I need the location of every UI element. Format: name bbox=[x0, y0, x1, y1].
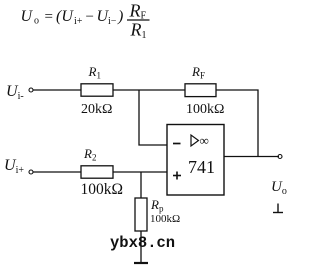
svg-text:100kΩ: 100kΩ bbox=[81, 181, 124, 198]
op-amp infinite-gain triangle symbol bbox=[191, 135, 199, 146]
wire R2 to op-amp + input bbox=[113, 171, 167, 173]
wire op-amp output bbox=[224, 156, 279, 158]
op-amp inverting pin - bbox=[173, 143, 181, 145]
op-amp non-inverting pin + bbox=[173, 172, 181, 180]
resistor Rp bbox=[135, 198, 147, 231]
svg-text:ybx8.cn: ybx8.cn bbox=[110, 234, 175, 252]
op-amp U1 741 bbox=[167, 125, 224, 196]
resistor R2 bbox=[81, 166, 113, 178]
svg-text:100kΩ: 100kΩ bbox=[150, 213, 180, 225]
svg-text:20kΩ: 20kΩ bbox=[81, 102, 112, 117]
wire Ui+ to R2 bbox=[33, 171, 81, 173]
node Ui- input terminal bbox=[6, 83, 33, 102]
wire R1 to RF and inverting node bbox=[113, 89, 185, 91]
svg-text:100kΩ: 100kΩ bbox=[186, 102, 224, 117]
svg-text:∞: ∞ bbox=[200, 133, 209, 148]
ground symbol at output bbox=[273, 204, 283, 213]
gain formula Uo = (Ui+ - Ui-) RF/R1 bbox=[21, 1, 150, 42]
svg-text:741: 741 bbox=[188, 157, 215, 177]
node output terminal bbox=[278, 155, 282, 159]
wire inverting node drop bbox=[139, 90, 167, 145]
wire Rp to ground bbox=[140, 231, 142, 263]
node Ui+ input terminal bbox=[4, 157, 33, 176]
wire Ui- to R1 bbox=[33, 89, 81, 91]
wire Rp junction drop bbox=[140, 172, 142, 198]
resistor R1 bbox=[81, 84, 113, 96]
ground bbox=[134, 262, 148, 264]
resistor RF bbox=[185, 84, 216, 97]
wire RF to feedback corner bbox=[216, 90, 258, 157]
